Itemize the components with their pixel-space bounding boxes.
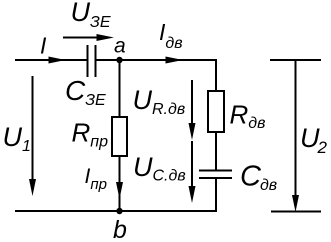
svg-text:I: I: [40, 33, 47, 59]
arrow current I_pr: [116, 182, 123, 199]
capacitor Cdv plates: [199, 170, 232, 172]
svg-text:a: a: [114, 35, 126, 58]
wire node a down to Rpr: [119, 60, 121, 117]
wire Cdv to bottom: [215, 178, 217, 212]
output terminal bottom bar: [271, 211, 321, 213]
wire Rpr to node b: [119, 156, 121, 211]
arrow voltage U_R.dv: [191, 80, 193, 124]
output terminal top bar: [270, 59, 321, 61]
arrow current I on input wire: [49, 57, 66, 64]
node a junction dot: [116, 57, 122, 63]
arrow voltage U_C.dv: [191, 141, 193, 187]
svg-text:b: b: [113, 216, 127, 242]
arrow voltage U2: [295, 60, 297, 196]
resistor Rdv body: [208, 91, 224, 132]
arrow U_3E direction: [63, 37, 99, 39]
capacitor C3E plates: [87, 45, 89, 77]
arrow voltage U1: [32, 76, 34, 180]
wire C3E to corner via node a: [96, 59, 218, 61]
wire Rdv to Cdv: [215, 132, 217, 170]
arrow current I_dv: [166, 57, 184, 64]
wire bottom return: [15, 210, 217, 212]
wire top-left input to C3E: [15, 59, 87, 61]
node b junction dot: [116, 208, 122, 214]
resistor Rpr body: [112, 117, 127, 156]
wire corner down to Rdv: [215, 59, 217, 91]
